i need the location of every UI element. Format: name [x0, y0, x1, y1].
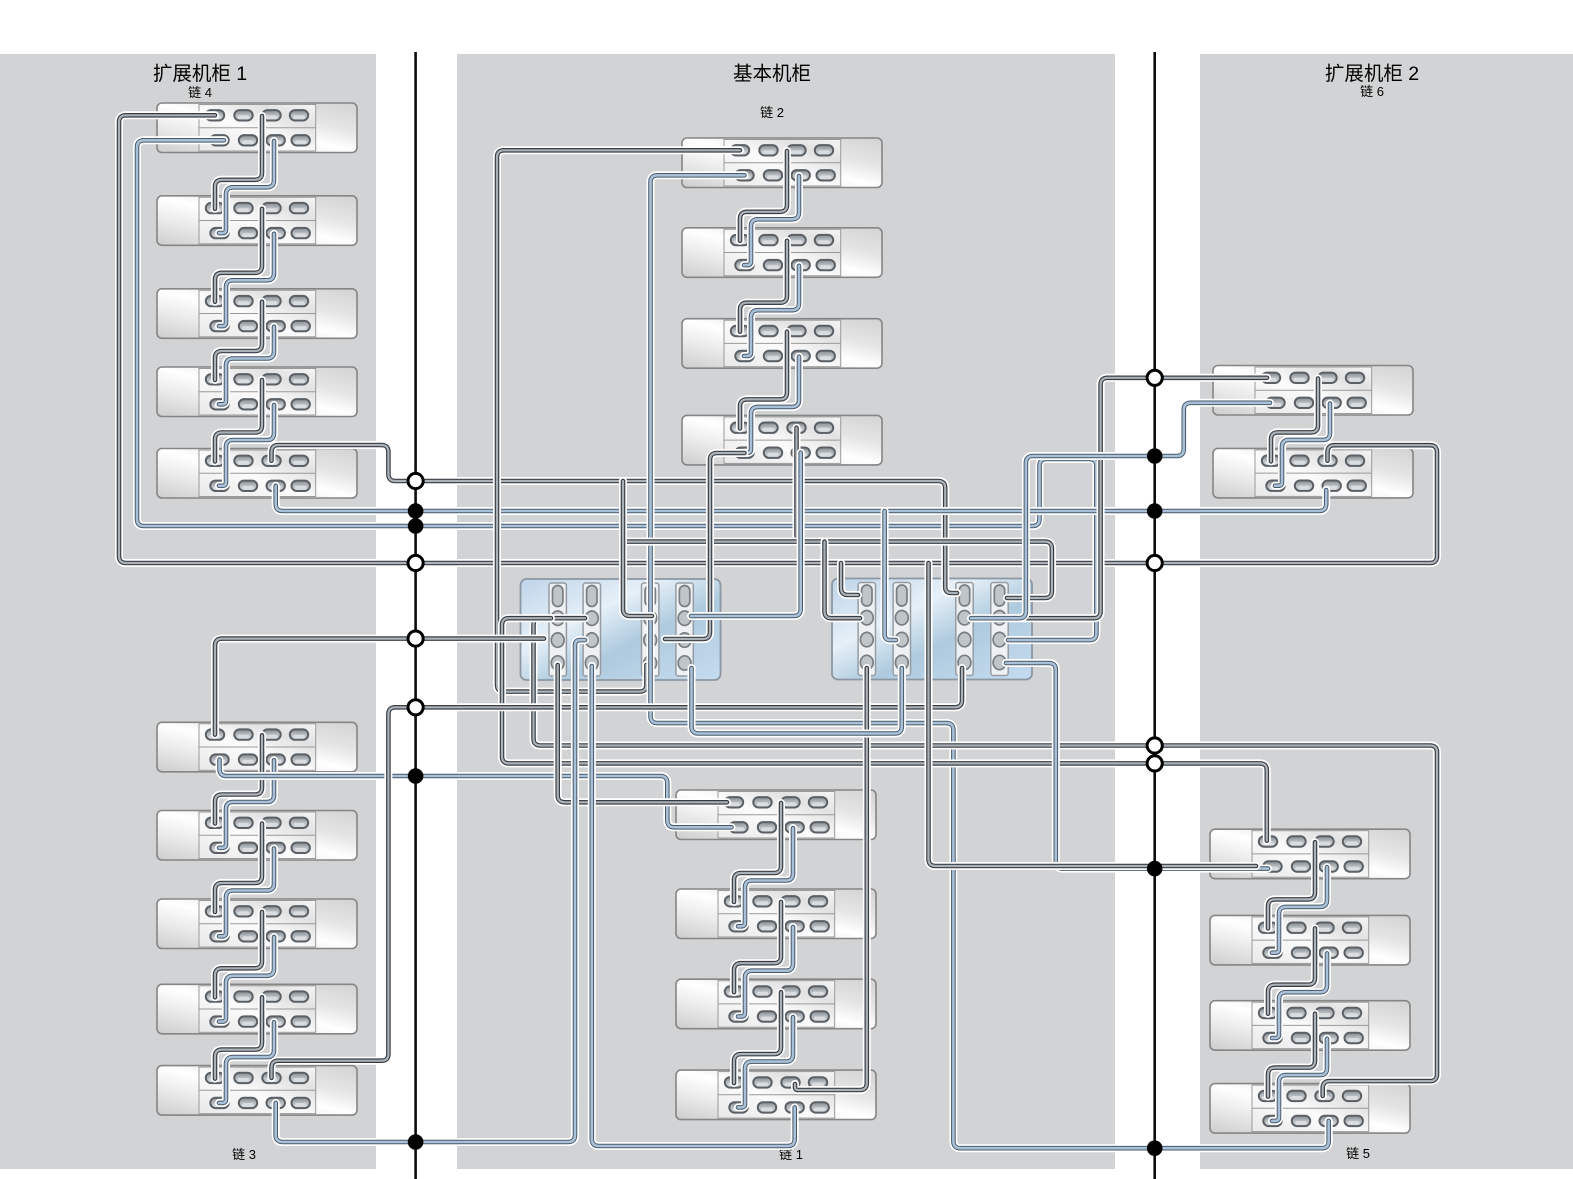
svg-text:扩展机柜 2: 扩展机柜 2: [1325, 63, 1419, 85]
svg-text:扩展机柜 1: 扩展机柜 1: [153, 63, 247, 85]
svg-text:链 3: 链 3: [232, 1147, 256, 1162]
svg-text:链 6: 链 6: [1360, 84, 1384, 99]
svg-text:链 2: 链 2: [760, 105, 784, 120]
svg-text:链 5: 链 5: [1346, 1146, 1370, 1161]
svg-text:基本机柜: 基本机柜: [733, 63, 811, 85]
svg-text:链 4: 链 4: [188, 85, 212, 100]
